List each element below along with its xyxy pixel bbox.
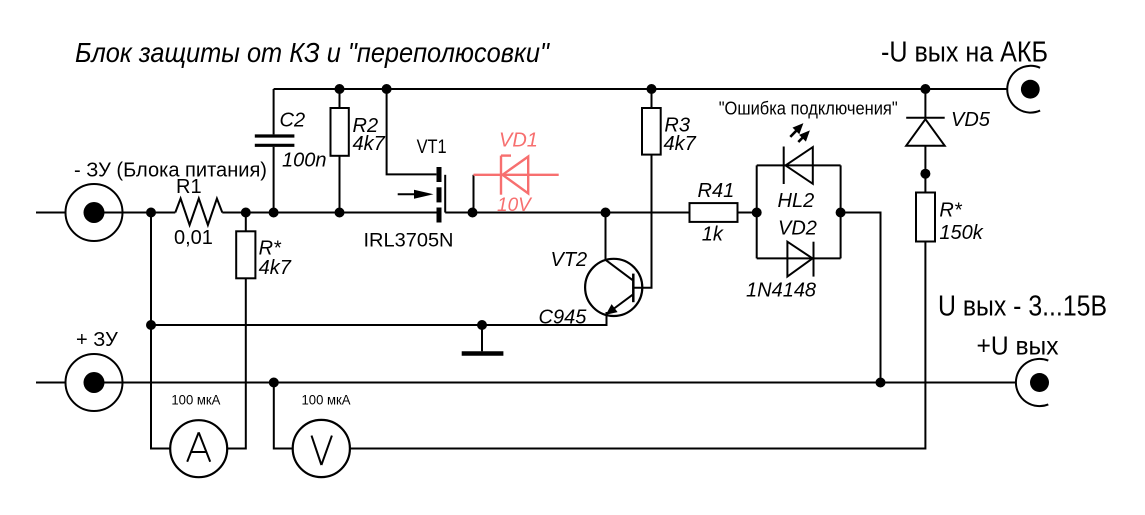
svg-text:R41: R41 (698, 180, 735, 202)
diode VD5 (906, 89, 991, 193)
node: VT2 collector junction (601, 208, 611, 218)
title (75, 37, 550, 68)
wire: HL2 top branch (757, 164, 841, 166)
wire: collector riser (605, 213, 607, 260)
wire: +ЗУ line to +U вых terminal (94, 382, 1016, 384)
wire: VD2 bottom branch (757, 257, 841, 259)
wire: R* 4k7 down to ammeter right lead (227, 278, 246, 448)
resistor R2 4k7 (331, 89, 386, 213)
terminal +U вых (output) (977, 331, 1059, 407)
svg-text:+U вых: +U вых (977, 331, 1059, 361)
node: junction B (R* 4k7 tap) (241, 208, 251, 218)
LED HL2 (719, 99, 898, 212)
svg-text:VT2: VT2 (551, 249, 588, 271)
terminal -U вых на АКБ (output to battery) (881, 37, 1048, 113)
transistor VT1 IRL3705N (MOSFET) (364, 137, 454, 252)
svg-text:C2: C2 (280, 110, 306, 132)
svg-text:+ ЗУ: + ЗУ (76, 329, 118, 351)
transistor VT2 C945 (539, 249, 643, 329)
resistor R* 4k7 (ammeter series) (236, 213, 292, 280)
node: LED block left junction (752, 208, 762, 218)
node: VD5 / R* junction (920, 169, 930, 179)
node: R2 bottom junction (335, 208, 345, 218)
svg-text:1k: 1k (702, 224, 724, 246)
svg-text:VT1: VT1 (417, 137, 447, 158)
svg-text:R1: R1 (176, 176, 202, 198)
zener diode VD1 10V (red) (474, 130, 559, 216)
node: voltmeter tap junction (269, 378, 279, 388)
node: LED return junction (876, 378, 886, 388)
svg-text:10V: 10V (497, 195, 533, 216)
svg-text:Блок защиты от КЗ и "переполюс: Блок защиты от КЗ и "переполюсовки" (75, 37, 550, 68)
svg-text:"Ошибка подключения": "Ошибка подключения" (719, 99, 898, 119)
svg-text:100n: 100n (282, 150, 327, 172)
svg-text:0,01: 0,01 (174, 227, 213, 249)
svg-text:R*: R* (939, 200, 962, 222)
resistor R41 1k (690, 180, 738, 246)
svg-text:VD1: VD1 (499, 130, 538, 152)
wire: VT1 drain to R41 (445, 212, 691, 214)
node: ground junction (477, 320, 487, 330)
wire: gate feed from top rail (387, 89, 437, 174)
resistor R* 150k (voltmeter series) (916, 193, 984, 245)
wire: top rail (274, 88, 1008, 90)
svg-text:100 мкА: 100 мкА (302, 392, 352, 408)
wire: junction A down to ammeter (151, 213, 170, 449)
label: output voltage range (938, 291, 1107, 323)
svg-text:- ЗУ (Блока питания): - ЗУ (Блока питания) (74, 160, 267, 182)
wire: left stub into -ЗУ terminal (36, 212, 66, 214)
svg-text:1N4148: 1N4148 (746, 279, 816, 301)
svg-text:4k7: 4k7 (664, 133, 697, 155)
svg-text:4k7: 4k7 (259, 257, 292, 279)
svg-text:U вых - 3...15В: U вых - 3...15В (938, 291, 1107, 323)
resistor R1 0,01 (shunt) (174, 176, 222, 249)
wire: emitter down and left to ground rail (151, 312, 607, 325)
node: C2 bottom junction (269, 208, 279, 218)
diode VD2 1N4148 (746, 218, 817, 302)
ammeter A 100 мкА (170, 392, 227, 478)
node: R2 top junction (335, 84, 345, 94)
svg-text:-U вых на АКБ: -U вых на АКБ (881, 37, 1048, 69)
svg-text:4k7: 4k7 (353, 133, 386, 155)
terminal -ЗУ (input, with label) (66, 160, 268, 242)
terminal +ЗУ (input) (66, 329, 123, 411)
svg-text:150k: 150k (939, 222, 983, 244)
svg-text:HL2: HL2 (778, 190, 815, 212)
wire: LED block to +U line (841, 213, 881, 383)
wire: R1 to VT1 source bar (222, 212, 436, 214)
node: emitter rail left junction (146, 320, 156, 330)
node: R3 top junction (647, 84, 657, 94)
wire: +ЗУ left stub (36, 382, 66, 384)
svg-text:VD2: VD2 (778, 218, 817, 240)
svg-text:VD5: VD5 (951, 109, 991, 131)
ground (462, 325, 504, 354)
node: VD5 branch junction (920, 84, 930, 94)
wire: voltmeter tap down (274, 383, 293, 449)
capacitor C2 100n (255, 89, 327, 213)
resistor R3 4k7 (635, 89, 697, 288)
wire: R* 150k down and left to voltmeter (350, 242, 925, 449)
wire: LED block left vertical (756, 165, 758, 258)
node: LED block right junction (836, 208, 846, 218)
node: VT1 gate rail junction (382, 84, 392, 94)
svg-text:100 мкА: 100 мкА (171, 392, 221, 408)
svg-text:IRL3705N: IRL3705N (364, 231, 454, 252)
node: VD1 tap junction (468, 208, 478, 218)
voltmeter V 100 мкА (293, 392, 351, 478)
wire: riser to VD1 (473, 175, 475, 213)
wire: -ЗУ terminal to R1 (94, 212, 175, 214)
wire: LED block right vertical (840, 165, 842, 258)
node: junction A (shunt tap left) (146, 208, 156, 218)
wire: R41 to LED block (738, 212, 757, 214)
